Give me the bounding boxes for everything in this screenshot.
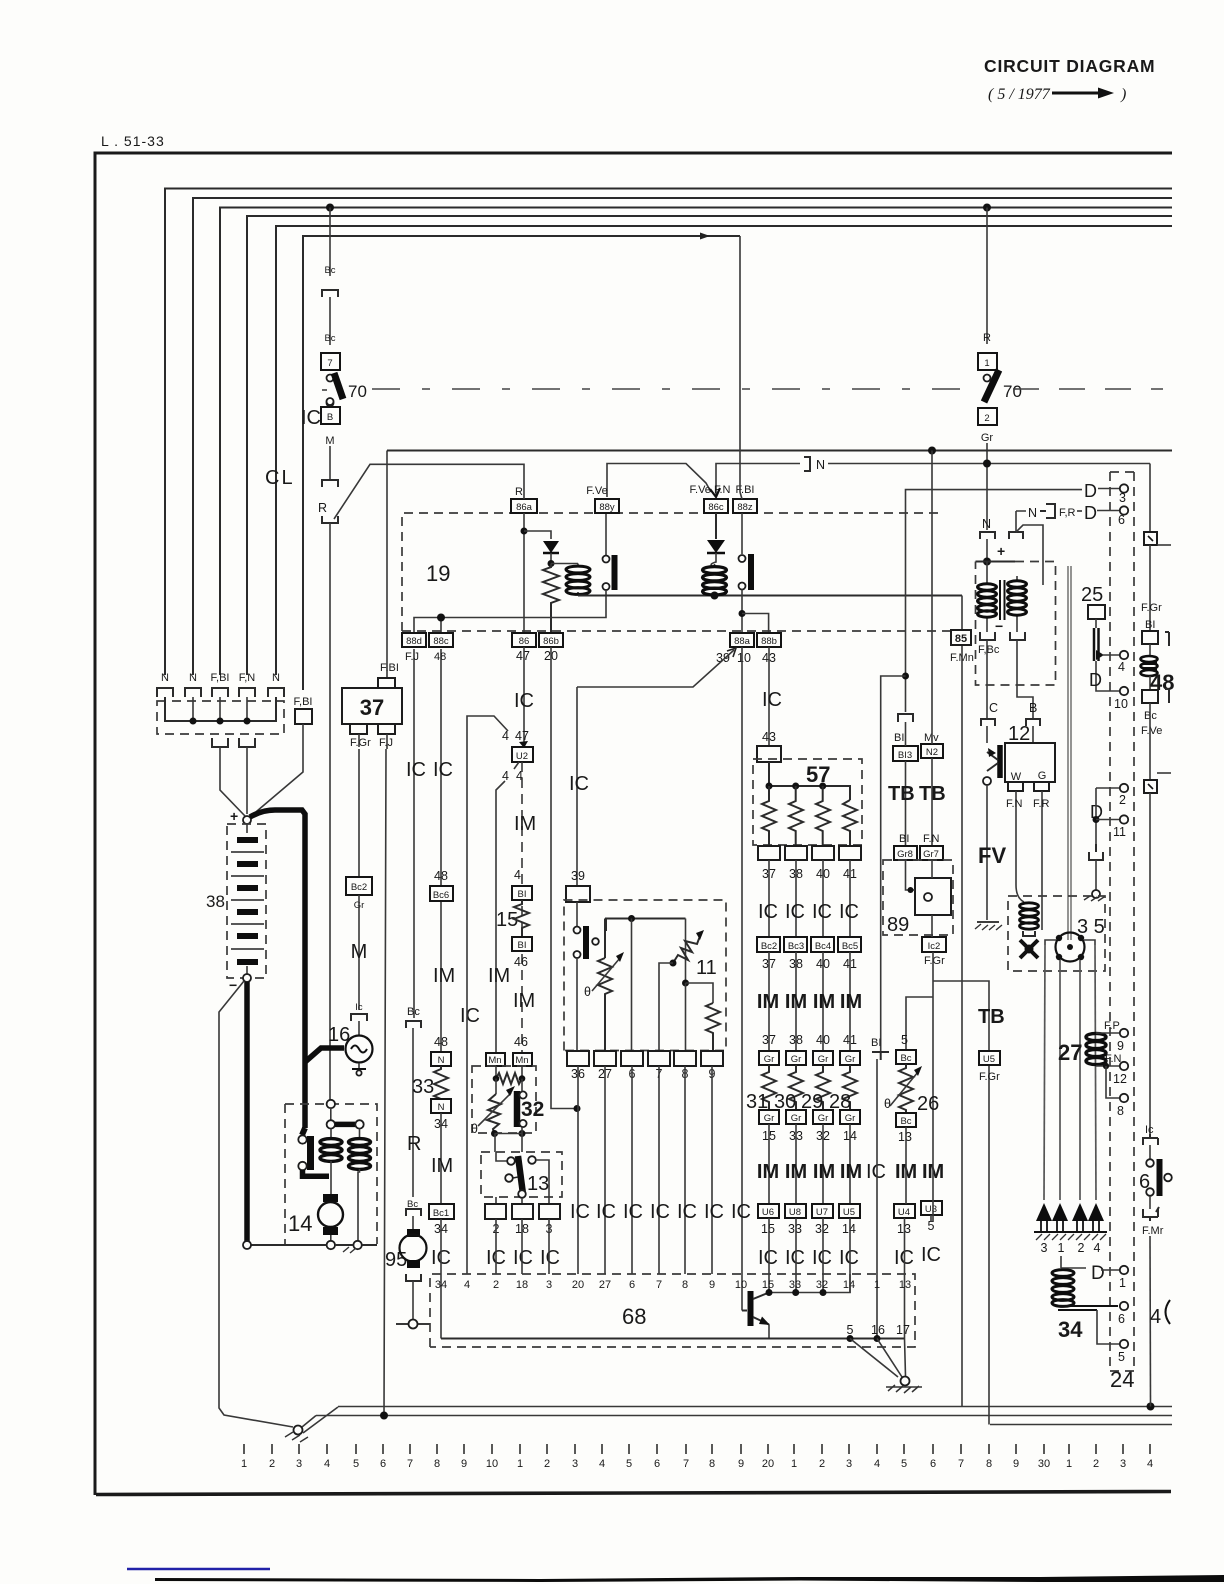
svg-text:6: 6 (654, 1458, 660, 1470)
wire Ic2 down with branches (932, 915, 933, 1222)
wire thick battery feed (250, 810, 305, 1128)
numbers under connector row (434, 1219, 934, 1236)
svg-text:IC: IC (785, 901, 805, 923)
svg-text:IC: IC (569, 773, 589, 795)
wire lower bus A (338, 1406, 1172, 1408)
connector Bc1 (429, 1204, 454, 1219)
svg-text:IC: IC (677, 1201, 697, 1223)
svg-text:46: 46 (514, 955, 528, 969)
svg-text:( 5 / 1977: ( 5 / 1977 (988, 86, 1051, 103)
svg-text:IC: IC (812, 901, 832, 923)
wire 86a down with branch (523, 513, 525, 632)
svg-text:F.P: F.P (1104, 1020, 1120, 1032)
wire branch to TB column (933, 981, 989, 1425)
wire thick battery minus to ground bus (244, 982, 250, 1243)
svg-text:BI: BI (518, 889, 527, 900)
node bus3-col330 (326, 204, 334, 212)
connector 8 (674, 1051, 696, 1081)
svg-text:Ic2: Ic2 (928, 941, 941, 952)
svg-text:U5: U5 (983, 1054, 995, 1065)
connector B with M label (col 330) (301, 398, 340, 447)
connector 86a with R label (511, 486, 537, 513)
svg-text:D: D (1091, 1263, 1105, 1284)
wire D to pin3 (1098, 488, 1119, 490)
node col685 y983 (682, 980, 689, 987)
svg-text:34: 34 (435, 1279, 447, 1291)
svg-text:F.N: F.N (1006, 798, 1023, 810)
glow plug resistors 31 30 29 28 (762, 1065, 857, 1110)
node bus3-col987 (983, 204, 991, 212)
svg-text:48: 48 (434, 869, 448, 883)
svg-text:47: 47 (516, 649, 530, 663)
switch contact relay1 (441, 513, 615, 632)
svg-text:24: 24 (1110, 1367, 1134, 1392)
distributor cap (1056, 933, 1085, 962)
connector Bc pair (col 330) (322, 265, 338, 297)
wire branch to diode1 (524, 531, 551, 539)
pin scale ticks (244, 1444, 1150, 1454)
svg-text:34: 34 (1058, 1317, 1083, 1342)
connector U4 (894, 1204, 915, 1218)
wire harness to battery plus (right) (246, 747, 248, 814)
connector Bc2 (col 359) (346, 877, 372, 911)
svg-text:C: C (989, 701, 998, 715)
node col386 on bus B (380, 1412, 388, 1420)
connector Ic2 (922, 937, 946, 952)
svg-text:10: 10 (1114, 697, 1128, 711)
pin circle 2 (1119, 784, 1128, 807)
wire bus line 4 (247, 216, 1172, 675)
svg-text:U7: U7 (816, 1207, 828, 1218)
svg-text:88d: 88d (406, 636, 422, 647)
switch contact relay2 (739, 513, 752, 633)
svg-text:30: 30 (1038, 1458, 1050, 1470)
svg-text:): ) (1120, 86, 1126, 103)
alternator 16 (328, 1024, 373, 1076)
svg-text:2: 2 (819, 1458, 825, 1470)
wire col524 47 to U2 (523, 647, 525, 746)
svg-text:Bc1: Bc1 (433, 1208, 449, 1219)
svg-text:IM: IM (514, 813, 536, 835)
connector N inline on y463 (804, 457, 1150, 472)
svg-text:Bc: Bc (900, 1053, 911, 1064)
svg-text:88a: 88a (734, 636, 751, 647)
connector 39 box (566, 886, 590, 902)
IM row ladder (757, 991, 862, 1013)
svg-text:26: 26 (917, 1093, 939, 1115)
connector B bracket (1026, 719, 1040, 726)
wire thin from battery minus diagonal (219, 981, 293, 1427)
connector brackets below alt box (980, 632, 1025, 640)
nodes on y1293 (766, 1289, 827, 1296)
wire col1150 seg2 (1149, 545, 1151, 631)
connector B box with circle (col 330 top) (329, 395, 331, 397)
relay coil L1 (551, 564, 590, 596)
connector 86b (539, 633, 563, 647)
pin circle 3 (1119, 484, 1128, 505)
svg-text:N: N (1028, 506, 1037, 520)
wires ladder mid (769, 952, 850, 1051)
svg-text:F.Gr: F.Gr (924, 955, 945, 967)
svg-text:2: 2 (544, 1458, 550, 1470)
node col987 on y463 (983, 460, 991, 468)
svg-text:Gr: Gr (818, 1113, 829, 1124)
svg-text:10: 10 (737, 651, 751, 665)
svg-text:IC: IC (758, 901, 778, 923)
wire col330 below M (329, 446, 331, 479)
connector U3 (921, 1201, 942, 1215)
motor 95 (385, 1229, 427, 1271)
relay coil L2 (703, 564, 727, 596)
svg-text:8: 8 (682, 1279, 688, 1291)
svg-text:86a: 86a (516, 502, 533, 513)
svg-text:13: 13 (898, 1130, 912, 1144)
wire 86c down to diode2 (715, 513, 717, 539)
wire col1150 seg4 (1149, 793, 1151, 1137)
wire col685 low (685, 983, 687, 1051)
wire B jog (1017, 640, 1033, 718)
wire bus line 3 (220, 208, 1172, 676)
transistor symbol at box12 (983, 745, 1000, 785)
svg-text:TB: TB (919, 783, 946, 805)
svg-text:3: 3 (1120, 1458, 1126, 1470)
svg-text:18: 18 (516, 1279, 528, 1291)
node 88c on y617 (437, 614, 445, 622)
svg-text:39: 39 (571, 869, 585, 883)
ground link bottom left (285, 1407, 338, 1442)
wire col742 10-line long (741, 647, 743, 1311)
svg-text:1: 1 (1066, 1458, 1072, 1470)
border frame (95, 153, 1172, 1495)
svg-text:F,BI: F,BI (294, 696, 313, 708)
svg-text:4: 4 (1094, 1241, 1101, 1255)
svg-text:IM: IM (813, 1161, 835, 1183)
connector Bc5 ladder (838, 937, 861, 952)
svg-text:5: 5 (1118, 1350, 1125, 1364)
svg-text:F,BI: F,BI (211, 672, 230, 684)
dashed box 68 (430, 1274, 915, 1347)
pin circle 9 (1117, 1029, 1128, 1053)
svg-text:BI: BI (518, 940, 527, 951)
battery 38 (206, 808, 266, 993)
heater resistor in box32 (493, 1065, 526, 1084)
wire col414 88d to Bc (413, 649, 415, 1018)
wire col303 to battery plus (250, 724, 303, 817)
node in 89 (908, 887, 914, 893)
resistor 57c (816, 786, 830, 846)
connector Bc upper col906 (896, 1050, 916, 1064)
wire col330 long down to motor 14 (329, 523, 331, 1101)
svg-text:6: 6 (629, 1279, 635, 1291)
connector 27 (594, 1051, 616, 1081)
svg-text:IC: IC (540, 1247, 560, 1269)
core bars alternator (1000, 580, 1005, 620)
svg-text:F.Ve: F.Ve (586, 485, 607, 497)
svg-text:Mn: Mn (515, 1055, 528, 1066)
chassis ground 68 (886, 1377, 922, 1394)
svg-text:IC: IC (812, 1247, 832, 1269)
svg-text:38: 38 (206, 892, 225, 911)
svg-text:IM: IM (488, 965, 510, 987)
connector Gr8 (894, 846, 917, 860)
svg-text:88y: 88y (599, 502, 615, 513)
wire 86a feed from CL (334, 464, 524, 519)
svg-text:48: 48 (434, 1035, 448, 1049)
switch 13 internals (496, 1152, 549, 1204)
svg-text:F.BI: F.BI (736, 484, 755, 496)
wire C column (986, 640, 988, 718)
HV leads to plugs (1044, 945, 1096, 1200)
svg-text:5: 5 (626, 1458, 632, 1470)
node col577 y1108 (574, 1105, 581, 1112)
solenoid coil 1 (320, 1129, 342, 1195)
svg-text:1: 1 (517, 1458, 523, 1470)
svg-text:47: 47 (515, 729, 529, 743)
svg-text:43: 43 (762, 730, 776, 744)
svg-text:1: 1 (791, 1458, 797, 1470)
svg-text:5: 5 (847, 1323, 854, 1337)
svg-text:Gr: Gr (791, 1054, 802, 1065)
connector Bc2 ladder (757, 937, 780, 952)
connector box A col1150 (1144, 532, 1171, 545)
svg-text:+: + (997, 543, 1005, 559)
svg-text:IC: IC (866, 1161, 886, 1183)
svg-text:IC: IC (570, 1201, 590, 1223)
svg-text:IM: IM (840, 991, 862, 1013)
dashed bracket marks col1165 (1165, 632, 1169, 703)
wire 4 jog to col467 (467, 716, 508, 1274)
svg-text:Bc: Bc (324, 265, 335, 276)
svg-text:2: 2 (493, 1279, 499, 1291)
connector 86 (512, 633, 536, 647)
svg-text:20: 20 (762, 1458, 774, 1470)
labels 37 38 40 41 row3 (762, 1033, 857, 1047)
wire column 330 upper (329, 208, 331, 277)
HV lead brackets (1045, 940, 1095, 945)
svg-text:CL: CL (265, 467, 295, 489)
svg-text:B: B (1029, 701, 1037, 715)
svg-text:U6: U6 (762, 1207, 774, 1218)
svg-text:4: 4 (514, 868, 521, 882)
svg-text:IC: IC (704, 1201, 724, 1223)
svg-text:13: 13 (527, 1173, 549, 1195)
svg-text:27: 27 (599, 1279, 611, 1291)
svg-text:F.Ve: F.Ve (1141, 725, 1162, 737)
wire stubs into harness (193, 697, 247, 721)
svg-text:8: 8 (709, 1458, 715, 1470)
svg-text:IM: IM (813, 991, 835, 1013)
wire col987 bracket to box (986, 539, 988, 562)
connector Mn right (513, 1053, 532, 1066)
wire branch to 88b (742, 614, 769, 634)
svg-text:40: 40 (816, 1033, 830, 1047)
label 4 with brace (1150, 1300, 1170, 1328)
contact bar box32 (517, 1091, 544, 1127)
svg-text:F.J: F.J (405, 651, 419, 663)
pin circle 11 (1113, 815, 1128, 839)
connector 36 (567, 1051, 589, 1081)
switch 6 push (1139, 1159, 1172, 1196)
svg-text:R: R (983, 332, 991, 344)
dashed box 19 (402, 513, 950, 631)
svg-text:Bc: Bc (900, 1116, 911, 1127)
svg-text:G: G (1038, 770, 1047, 782)
wire ground bus y1338 (441, 1338, 905, 1340)
svg-text:85: 85 (955, 633, 967, 645)
transistor Q1 in box68 (742, 1291, 770, 1339)
svg-text:IM: IM (757, 1161, 779, 1183)
scan edge bottom (155, 1575, 1224, 1582)
connector Gr7 (920, 846, 943, 860)
connector N bracket col987 (980, 532, 995, 539)
svg-text:11: 11 (1113, 825, 1126, 839)
dash F.R-D (1077, 510, 1082, 512)
svg-text:4: 4 (324, 1458, 330, 1470)
svg-text:M: M (325, 435, 334, 447)
svg-text:10: 10 (486, 1458, 498, 1470)
svg-text:D: D (1084, 503, 1097, 523)
pin circle 12 (1113, 1062, 1128, 1086)
starter contact blade (298, 1128, 329, 1176)
pin circle 5b (1118, 1340, 1128, 1364)
wire col906 to U4 (905, 1127, 907, 1204)
svg-text:3 5: 3 5 (1077, 916, 1105, 938)
svg-text:Gr: Gr (981, 432, 994, 444)
svg-text:32: 32 (521, 1098, 544, 1121)
wire col441 N to Bc1 (440, 1113, 442, 1204)
ground terminal 95 (396, 1320, 430, 1329)
starter solenoid terminals (327, 1100, 364, 1129)
connector N upper (col441) (431, 1052, 451, 1066)
connector box D col1150 (1144, 773, 1171, 793)
field coil A (978, 562, 997, 633)
wire branch to T terminal (881, 676, 906, 1052)
svg-text:5: 5 (901, 1458, 907, 1470)
svg-text:N2: N2 (926, 747, 938, 758)
wires converge to chassis ground (850, 1339, 906, 1378)
connector Bc bracket above motor95 (406, 1199, 421, 1232)
svg-text:N: N (189, 672, 197, 684)
ground bus starter (243, 1241, 377, 1253)
svg-text:4: 4 (1147, 1458, 1153, 1470)
wire D2 to pin6 (1097, 510, 1119, 512)
node col932 on y450 (928, 447, 936, 455)
motor 14 (288, 1194, 343, 1241)
svg-text:32: 32 (815, 1222, 829, 1236)
svg-text:9: 9 (738, 1458, 744, 1470)
connector bracket D3 (1089, 844, 1103, 860)
connector Mn left (486, 1053, 505, 1066)
labels 5 16 17 (847, 1323, 910, 1337)
svg-text:Gr: Gr (764, 1113, 775, 1124)
pin circle 10 (1114, 687, 1128, 711)
pin scale numbers (241, 1458, 1153, 1470)
connector brackets row (left harness) (157, 688, 284, 697)
svg-text:Gr: Gr (818, 1054, 829, 1065)
svg-text:FV: FV (978, 843, 1006, 868)
svg-text:14: 14 (288, 1211, 312, 1236)
wire col359 Bc2 to alternator (358, 895, 360, 1010)
svg-text:3: 3 (572, 1458, 578, 1470)
svg-text:14: 14 (843, 1279, 855, 1291)
svg-text:41: 41 (843, 1033, 857, 1047)
svg-text:F.N: F.N (923, 833, 940, 845)
wire col987 down to junction y462 (986, 443, 988, 530)
svg-text:IC: IC (514, 690, 534, 712)
svg-text:Gr: Gr (845, 1113, 856, 1124)
svg-text:4: 4 (464, 1279, 470, 1291)
connector Bc3 ladder (784, 937, 807, 952)
svg-text:IM: IM (433, 965, 455, 987)
svg-text:9: 9 (461, 1458, 467, 1470)
pin circle 6 (1118, 506, 1128, 527)
ignition coil 34 (1052, 1256, 1119, 1344)
svg-text:Gr7: Gr7 (923, 849, 939, 860)
resistor 57b (789, 786, 803, 846)
svg-text:14: 14 (842, 1222, 856, 1236)
svg-text:U2: U2 (516, 751, 528, 762)
diode D1 (543, 541, 559, 562)
starter 14 dashed box (285, 1104, 377, 1244)
wire col631 down (631, 919, 633, 1052)
svg-text:3: 3 (1119, 491, 1126, 505)
svg-text:8: 8 (986, 1458, 992, 1470)
svg-text:R: R (407, 1133, 421, 1155)
svg-text:4: 4 (874, 1458, 880, 1470)
svg-text:33: 33 (412, 1076, 434, 1098)
svg-text:Gr8: Gr8 (897, 849, 913, 860)
wire col441 88c down (440, 649, 442, 1052)
svg-text:N: N (982, 517, 991, 531)
svg-text:CIRCUIT DIAGRAM: CIRCUIT DIAGRAM (984, 56, 1155, 76)
pin circle 6b (1118, 1302, 1128, 1326)
svg-text:BI: BI (894, 732, 904, 744)
connector 88c (429, 633, 453, 647)
connector BI lower (col522) (512, 937, 532, 951)
heater coil 48 (1141, 644, 1175, 695)
svg-text:BI: BI (871, 1037, 881, 1049)
rheostat theta in box11 (584, 919, 624, 1052)
nodes box57 (766, 783, 827, 790)
relay contact in 89 (915, 878, 951, 915)
switch 70 right column from bus3 (986, 208, 988, 345)
svg-text:N: N (438, 1102, 445, 1113)
svg-text:U8: U8 (789, 1207, 801, 1218)
chassis ground D3 (1084, 860, 1104, 901)
connector 88y with F.Ve (586, 485, 619, 513)
svg-text:U5: U5 (843, 1207, 855, 1218)
svg-text:IM: IM (785, 1161, 807, 1183)
switch 70 left (322, 373, 367, 407)
svg-text:F.Mr: F.Mr (1142, 1225, 1164, 1237)
svg-text:2: 2 (1093, 1458, 1099, 1470)
contact breaker cross (1020, 940, 1038, 958)
dashed box 57 (753, 759, 862, 845)
connector box C col1150 (1142, 690, 1158, 703)
svg-text:88b: 88b (761, 636, 777, 647)
wire 20-line col551 (551, 647, 577, 1109)
svg-text:N: N (816, 458, 825, 472)
node diode1-res (548, 560, 555, 567)
svg-text:U3: U3 (925, 1204, 937, 1215)
resistor 57d (843, 800, 857, 846)
svg-text:17: 17 (896, 1323, 910, 1337)
labels 15 33 32 14 (762, 1129, 857, 1143)
pin numbers row in box68 (435, 1279, 911, 1291)
wire branch to 26 column (906, 997, 933, 1050)
connector 86c with F.Ve F.N (690, 484, 731, 513)
wire D feed line (906, 490, 1083, 712)
